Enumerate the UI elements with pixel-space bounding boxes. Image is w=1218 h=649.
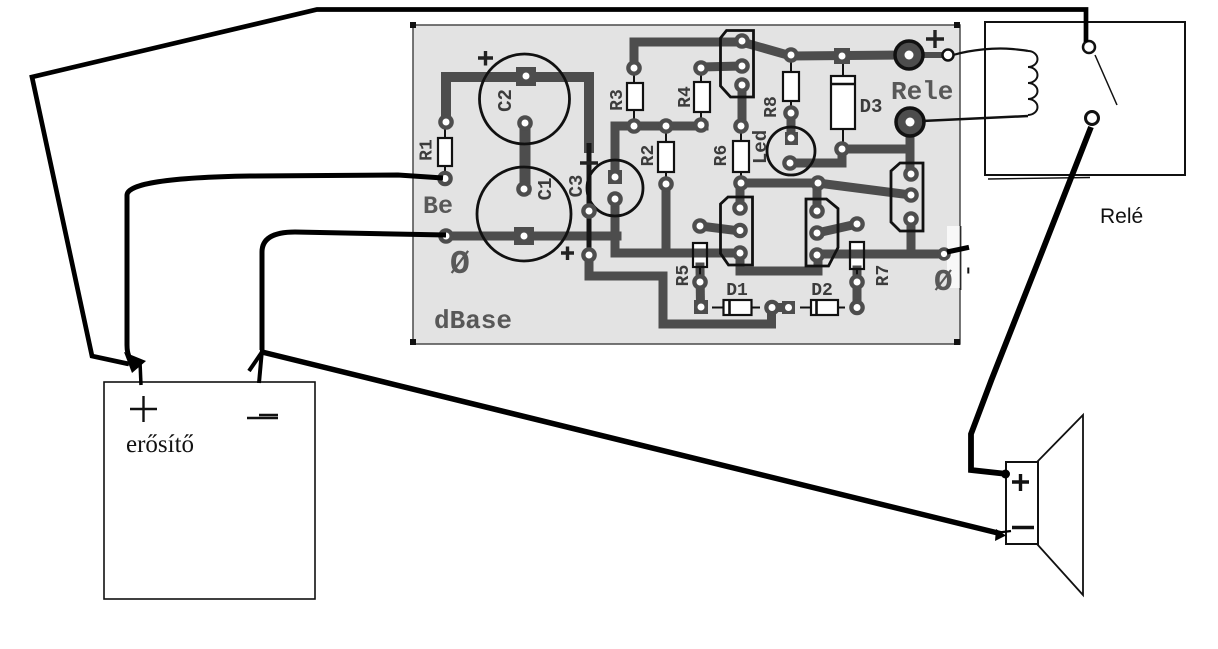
svg-text:D3: D3 [860,96,883,118]
svg-text:R7: R7 [874,265,894,287]
svg-text:R3: R3 [608,89,628,111]
svg-text:C2: C2 [495,89,517,112]
svg-text:Led: Led [750,130,772,164]
svg-text:R6: R6 [712,145,732,167]
svg-text:D2: D2 [811,281,833,301]
svg-text:erősítő: erősítő [126,431,194,458]
svg-text:Be: Be [423,192,453,221]
svg-text:R5: R5 [674,265,694,287]
svg-text:R1: R1 [418,139,438,161]
svg-text:D1: D1 [726,281,748,301]
svg-text:C3: C3 [566,175,588,198]
svg-text:R4: R4 [676,86,696,108]
svg-text:R2: R2 [639,145,659,167]
svg-text:Rele: Rele [891,77,953,107]
svg-text:C1: C1 [535,178,557,201]
svg-text:Relé: Relé [1100,205,1143,228]
svg-text:Ø: Ø [450,246,470,283]
svg-text:R8: R8 [762,96,782,118]
svg-text:dBase: dBase [434,306,512,336]
svg-text:Ø: Ø [934,265,953,300]
